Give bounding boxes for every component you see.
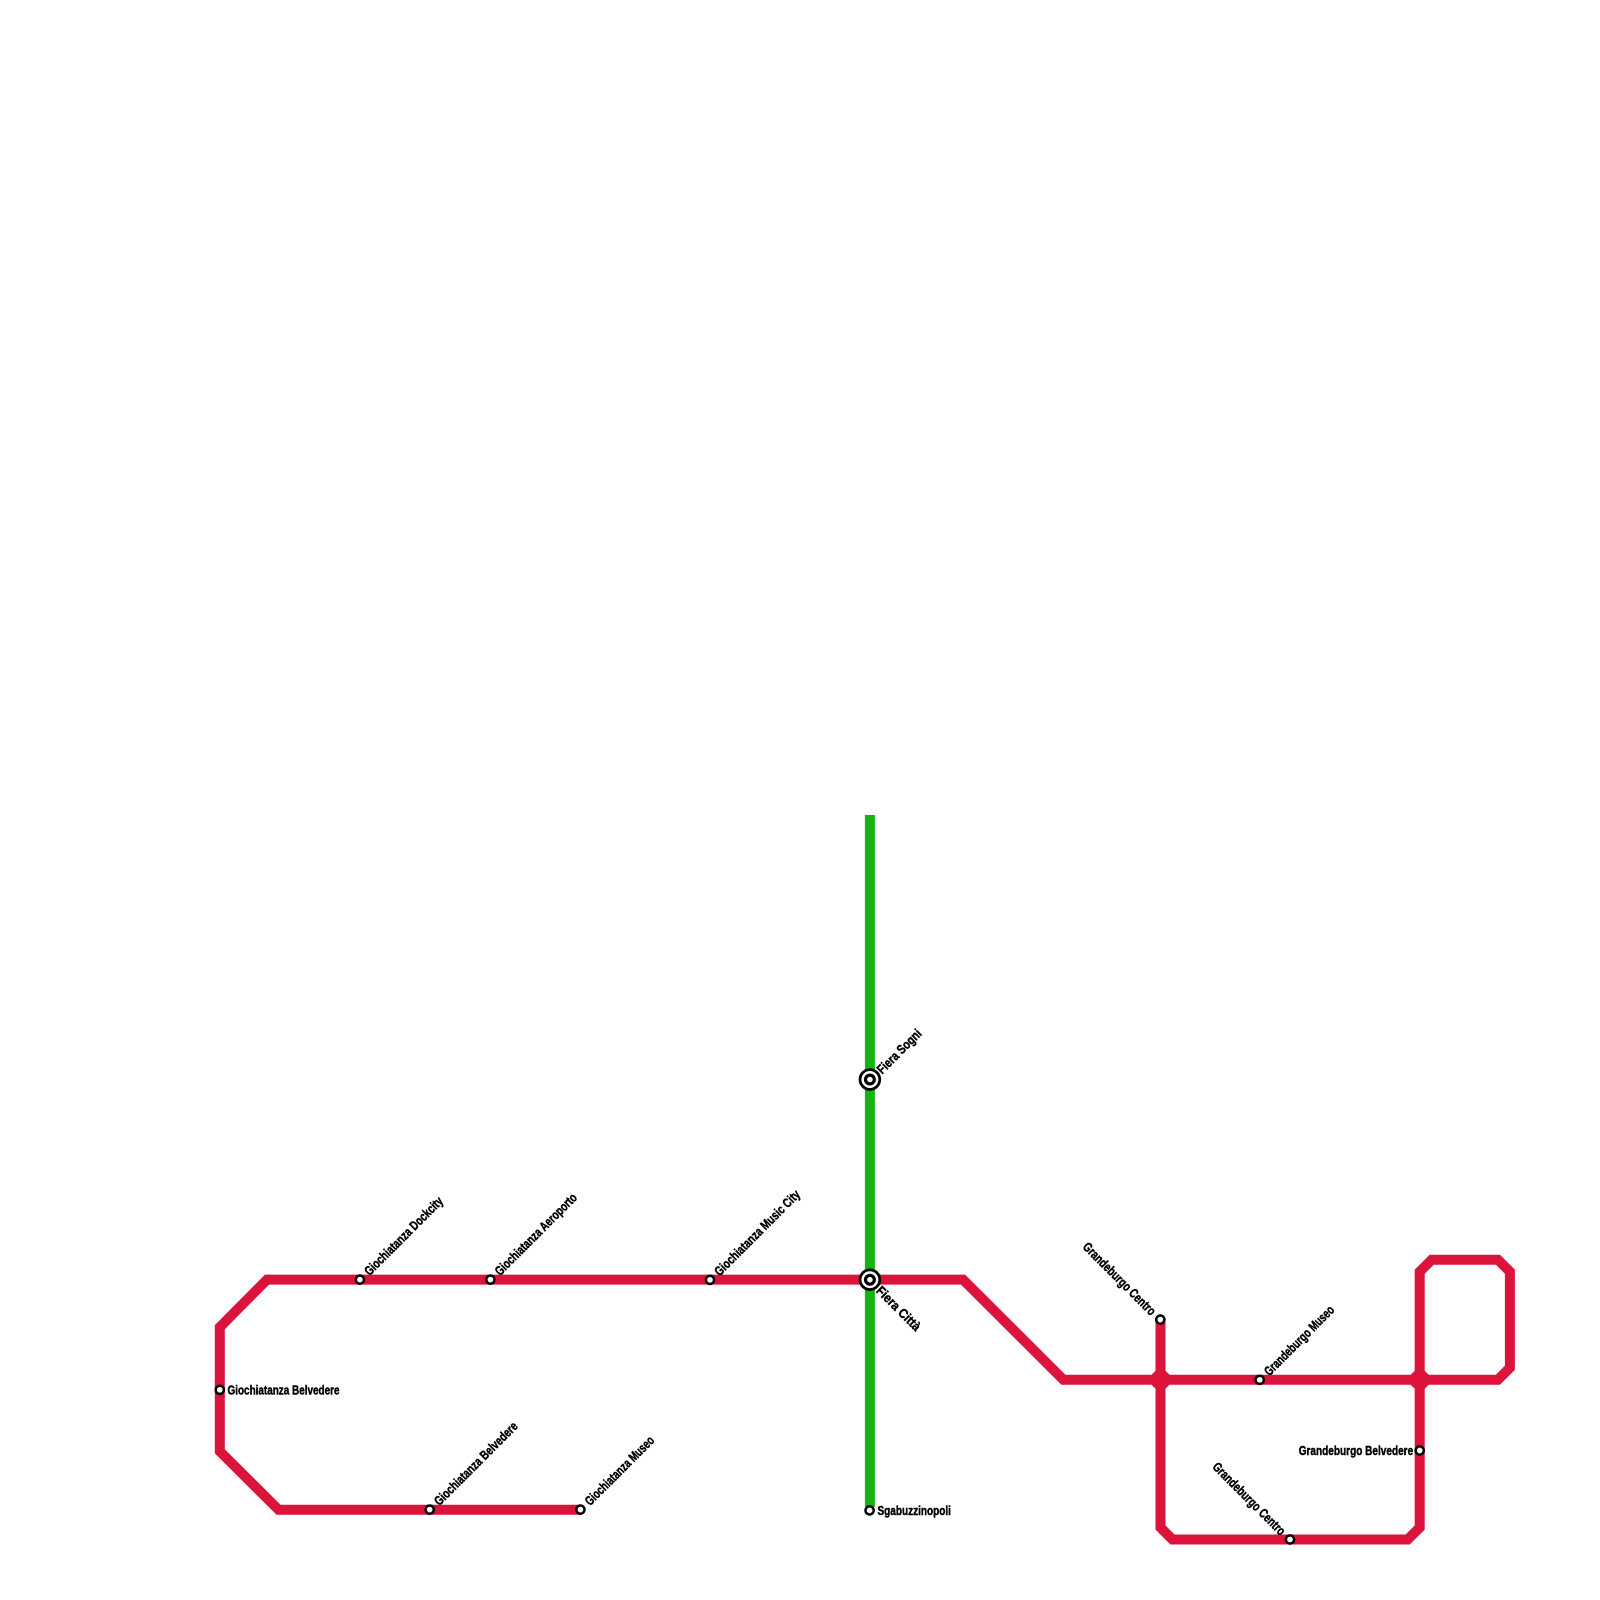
svg-text:Grandeburgo Belvedere: Grandeburgo Belvedere <box>1299 1443 1414 1458</box>
svg-text:Sgabuzzinopoli: Sgabuzzinopoli <box>878 1503 951 1518</box>
svg-text:Giochiatanza Belvedere: Giochiatanza Belvedere <box>228 1382 340 1397</box>
